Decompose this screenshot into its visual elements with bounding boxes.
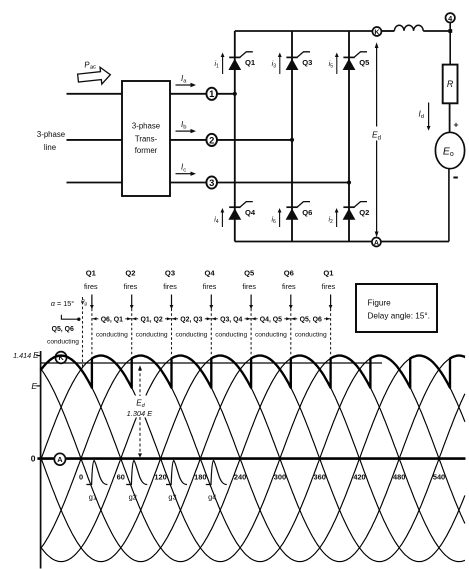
svg-text:1.304 E: 1.304 E [127,409,153,418]
svg-text:fires: fires [84,282,98,291]
svg-text:Q3: Q3 [302,58,312,67]
svg-text:Figure: Figure [368,299,392,308]
svg-text:g1: g1 [89,493,97,502]
svg-text:R: R [447,79,454,89]
svg-text:Q4, Q5: Q4, Q5 [260,317,282,324]
svg-text:3: 3 [209,177,214,188]
svg-text:Q5, Q6: Q5, Q6 [300,317,322,324]
svg-text:Q5: Q5 [359,58,370,67]
svg-text:conducting: conducting [47,339,79,346]
svg-text:fires: fires [124,282,138,291]
svg-text:540: 540 [433,472,445,481]
svg-text:K: K [374,29,379,36]
svg-text:conducting: conducting [175,331,207,338]
svg-text:g2: g2 [129,493,137,502]
svg-text:Q1: Q1 [245,58,256,67]
svg-text:conducting: conducting [136,331,168,338]
svg-text:Q6, Q1: Q6, Q1 [101,317,123,324]
svg-text:3-phase: 3-phase [37,130,65,139]
svg-text:300: 300 [274,472,286,481]
svg-text:Q3: Q3 [165,269,175,278]
svg-text:A: A [374,240,379,247]
svg-text:Q3, Q4: Q3, Q4 [220,317,242,324]
svg-text:Q4: Q4 [205,269,216,278]
svg-text:former: former [135,146,158,155]
svg-text:Q2: Q2 [359,208,369,217]
svg-text:0: 0 [31,454,36,464]
svg-text:0: 0 [79,472,83,481]
svg-text:Delay angle: 15°.: Delay angle: 15°. [368,312,430,321]
svg-text:fires: fires [322,282,336,291]
svg-text:α = 15°: α = 15° [51,299,74,308]
svg-text:A: A [57,455,63,464]
svg-text:480: 480 [393,472,405,481]
svg-text:180: 180 [194,472,206,481]
svg-text:360: 360 [314,472,326,481]
svg-text:E: E [31,381,37,391]
svg-text:fires: fires [163,282,177,291]
svg-text:Q1, Q2: Q1, Q2 [140,317,162,324]
svg-text:line: line [44,143,56,152]
svg-text:Q6: Q6 [302,208,312,217]
svg-text:1: 1 [209,88,214,99]
svg-text:60: 60 [117,472,125,481]
svg-text:Q2, Q3: Q2, Q3 [180,317,202,324]
svg-text:g4: g4 [208,493,216,502]
svg-text:fires: fires [282,282,296,291]
svg-text:Q5, Q6: Q5, Q6 [52,326,74,333]
svg-text:420: 420 [353,472,365,481]
svg-text:Q2: Q2 [125,269,135,278]
svg-text:conducting: conducting [295,331,327,338]
svg-text:Q6: Q6 [284,269,294,278]
svg-text:Q5: Q5 [244,269,255,278]
svg-text:120: 120 [154,472,166,481]
svg-text:Q4: Q4 [245,208,256,217]
svg-text:conducting: conducting [255,331,287,338]
svg-text:fires: fires [242,282,256,291]
svg-text:conducting: conducting [215,331,247,338]
svg-text:g3: g3 [168,493,176,502]
svg-text:Q1: Q1 [86,269,97,278]
svg-text:Trans-: Trans- [135,134,158,143]
svg-text:3-phase: 3-phase [132,121,160,130]
svg-text:Q1: Q1 [323,269,334,278]
svg-text:fires: fires [203,282,217,291]
svg-text:+: + [453,119,458,129]
svg-text:2: 2 [209,134,214,145]
svg-text:1.414 E: 1.414 E [13,351,39,360]
svg-text:240: 240 [234,472,246,481]
svg-text:conducting: conducting [96,331,128,338]
